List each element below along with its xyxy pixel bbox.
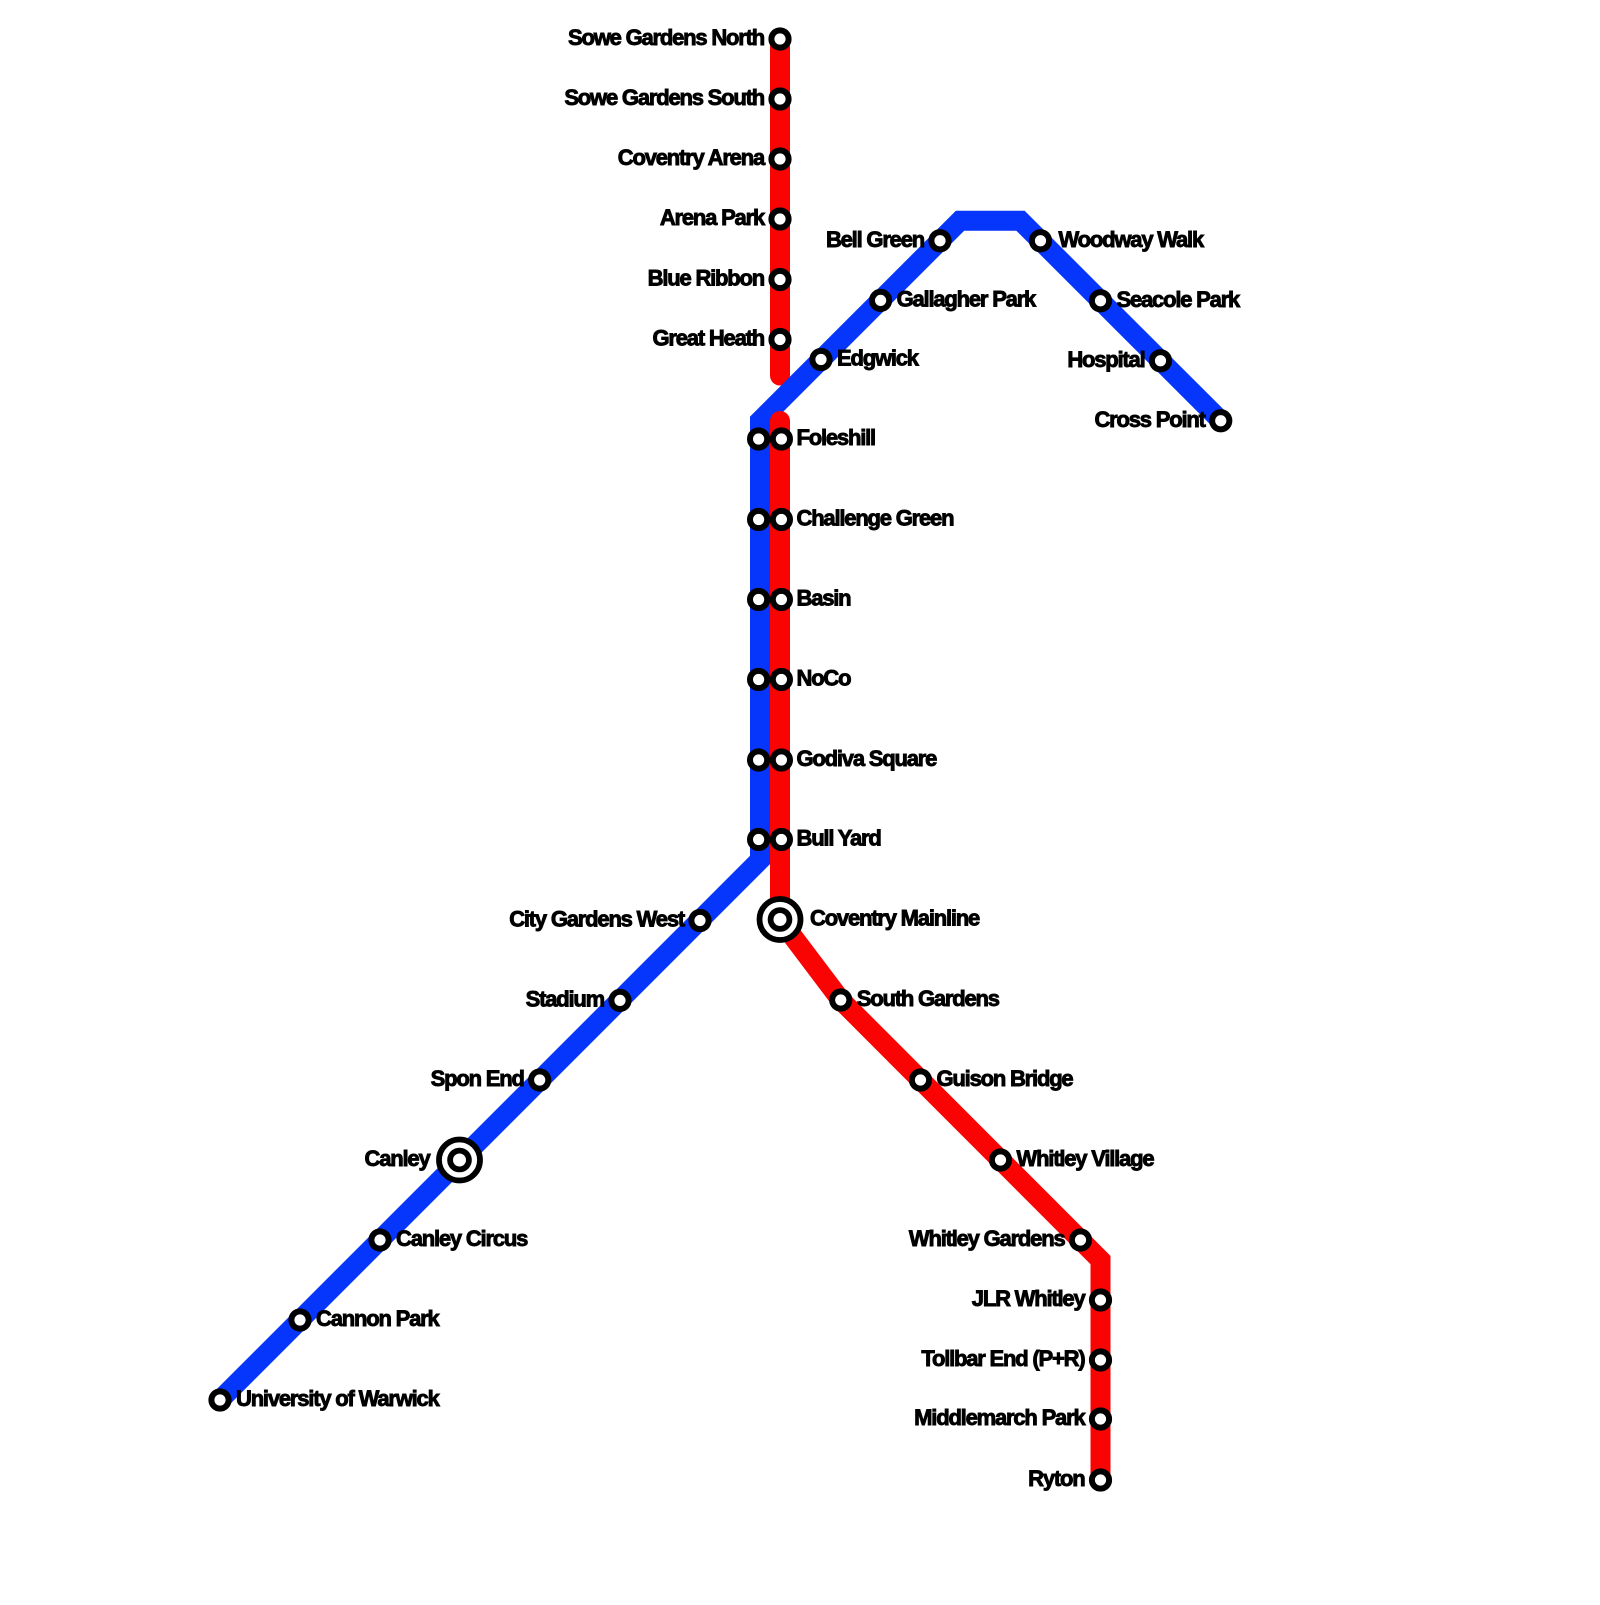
node Ryton bbox=[1028, 1466, 1109, 1491]
node Whitley Gardens bbox=[909, 1226, 1089, 1251]
svg-text:Basin: Basin bbox=[797, 586, 852, 611]
wire bbox=[780, 421, 1101, 1480]
svg-text:Seacole Park: Seacole Park bbox=[1117, 287, 1242, 312]
node Great Heath bbox=[652, 326, 788, 351]
wire bbox=[220, 221, 1221, 1400]
svg-text:City Gardens West: City Gardens West bbox=[509, 907, 686, 932]
node Tollbar End (P+R) bbox=[921, 1346, 1109, 1371]
node Godiva Square bbox=[750, 746, 937, 771]
node Coventry Mainline bbox=[760, 899, 981, 940]
node Hospital bbox=[1067, 347, 1169, 372]
node Sowe Gardens South bbox=[564, 85, 788, 110]
node Seacole Park bbox=[1092, 287, 1241, 312]
node City Gardens West bbox=[509, 907, 708, 932]
svg-text:Ryton: Ryton bbox=[1028, 1466, 1085, 1491]
node Bell Green bbox=[826, 227, 949, 252]
node Edgwick bbox=[812, 346, 919, 371]
node NoCo bbox=[750, 666, 851, 691]
svg-text:University of Warwick: University of Warwick bbox=[236, 1386, 441, 1411]
svg-text:Middlemarch Park: Middlemarch Park bbox=[914, 1405, 1086, 1430]
svg-text:Bull Yard: Bull Yard bbox=[797, 826, 881, 851]
node Guison Bridge bbox=[912, 1066, 1074, 1091]
svg-text:Foleshill: Foleshill bbox=[797, 425, 876, 450]
svg-text:Coventry Mainline: Coventry Mainline bbox=[810, 906, 980, 931]
node Blue Ribbon bbox=[648, 266, 789, 291]
node University of Warwick bbox=[211, 1386, 440, 1411]
svg-text:Edgwick: Edgwick bbox=[837, 346, 920, 371]
node Sowe Gardens North bbox=[568, 25, 789, 50]
node Spon End bbox=[431, 1066, 549, 1091]
svg-text:Sowe Gardens South: Sowe Gardens South bbox=[564, 85, 764, 110]
node Woodway Walk bbox=[1032, 227, 1205, 252]
node Challenge Green bbox=[750, 506, 954, 531]
svg-text:Whitley Village: Whitley Village bbox=[1017, 1146, 1155, 1171]
svg-text:Canley Circus: Canley Circus bbox=[396, 1226, 528, 1251]
node Cross Point bbox=[1094, 407, 1229, 432]
node South Gardens bbox=[832, 986, 1000, 1011]
svg-text:Challenge Green: Challenge Green bbox=[797, 506, 955, 531]
node JLR Whitley bbox=[972, 1286, 1109, 1311]
svg-text:Sowe Gardens North: Sowe Gardens North bbox=[568, 25, 765, 50]
node Middlemarch Park bbox=[914, 1405, 1109, 1430]
svg-text:Cannon Park: Cannon Park bbox=[316, 1306, 440, 1331]
svg-text:Canley: Canley bbox=[365, 1146, 432, 1171]
svg-text:Whitley Gardens: Whitley Gardens bbox=[909, 1226, 1066, 1251]
svg-text:Hospital: Hospital bbox=[1067, 347, 1144, 372]
svg-text:Spon End: Spon End bbox=[431, 1066, 524, 1091]
svg-text:Guison Bridge: Guison Bridge bbox=[937, 1066, 1074, 1091]
node Foleshill bbox=[750, 425, 875, 450]
svg-text:Great Heath: Great Heath bbox=[652, 326, 764, 351]
node Canley bbox=[365, 1140, 480, 1181]
svg-text:Arena Park: Arena Park bbox=[660, 205, 766, 230]
wire bbox=[770, 39, 790, 376]
node Bull Yard bbox=[750, 826, 881, 851]
node Stadium bbox=[526, 986, 629, 1011]
svg-text:Cross Point: Cross Point bbox=[1094, 407, 1206, 432]
svg-text:Tollbar End (P+R): Tollbar End (P+R) bbox=[921, 1346, 1085, 1371]
svg-text:Woodway Walk: Woodway Walk bbox=[1059, 227, 1205, 252]
node Basin bbox=[750, 586, 851, 611]
svg-text:Coventry Arena: Coventry Arena bbox=[618, 145, 766, 170]
svg-text:Godiva Square: Godiva Square bbox=[797, 746, 938, 771]
svg-text:South Gardens: South Gardens bbox=[857, 986, 1000, 1011]
node Gallagher Park bbox=[872, 286, 1037, 311]
node Cannon Park bbox=[291, 1306, 440, 1331]
node Arena Park bbox=[660, 205, 789, 230]
node Coventry Arena bbox=[618, 145, 789, 170]
node Canley Circus bbox=[371, 1226, 528, 1251]
svg-text:Stadium: Stadium bbox=[526, 986, 605, 1011]
svg-text:NoCo: NoCo bbox=[797, 666, 852, 691]
svg-text:JLR Whitley: JLR Whitley bbox=[972, 1286, 1087, 1311]
node Whitley Village bbox=[992, 1146, 1154, 1171]
svg-text:Blue Ribbon: Blue Ribbon bbox=[648, 266, 765, 291]
svg-text:Gallagher Park: Gallagher Park bbox=[897, 286, 1037, 311]
svg-text:Bell Green: Bell Green bbox=[826, 227, 925, 252]
